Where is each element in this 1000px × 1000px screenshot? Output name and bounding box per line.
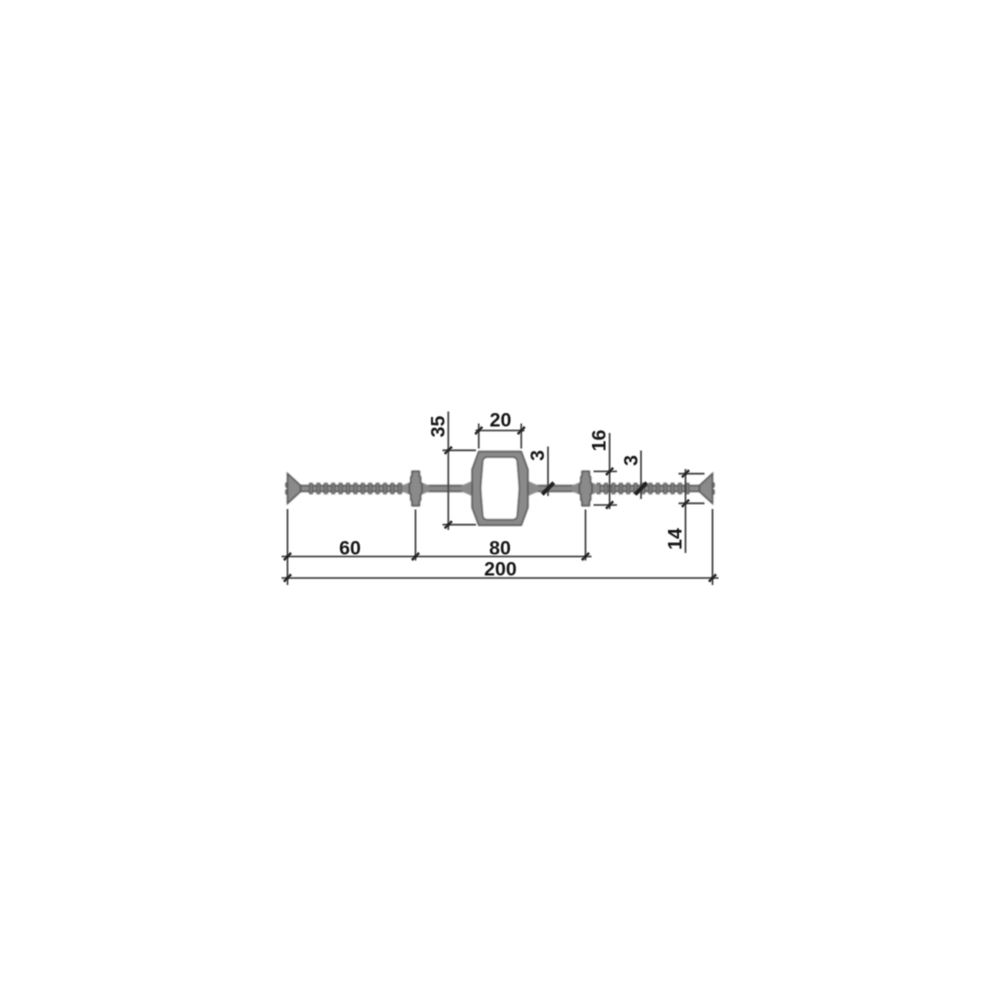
svg-text:3: 3: [527, 450, 549, 461]
svg-text:16: 16: [589, 430, 611, 452]
svg-text:35: 35: [428, 416, 450, 438]
svg-text:200: 200: [484, 559, 517, 581]
svg-text:60: 60: [339, 538, 361, 560]
svg-text:3: 3: [621, 455, 643, 466]
svg-text:14: 14: [665, 528, 687, 550]
svg-text:20: 20: [490, 410, 512, 432]
svg-text:80: 80: [489, 538, 511, 560]
